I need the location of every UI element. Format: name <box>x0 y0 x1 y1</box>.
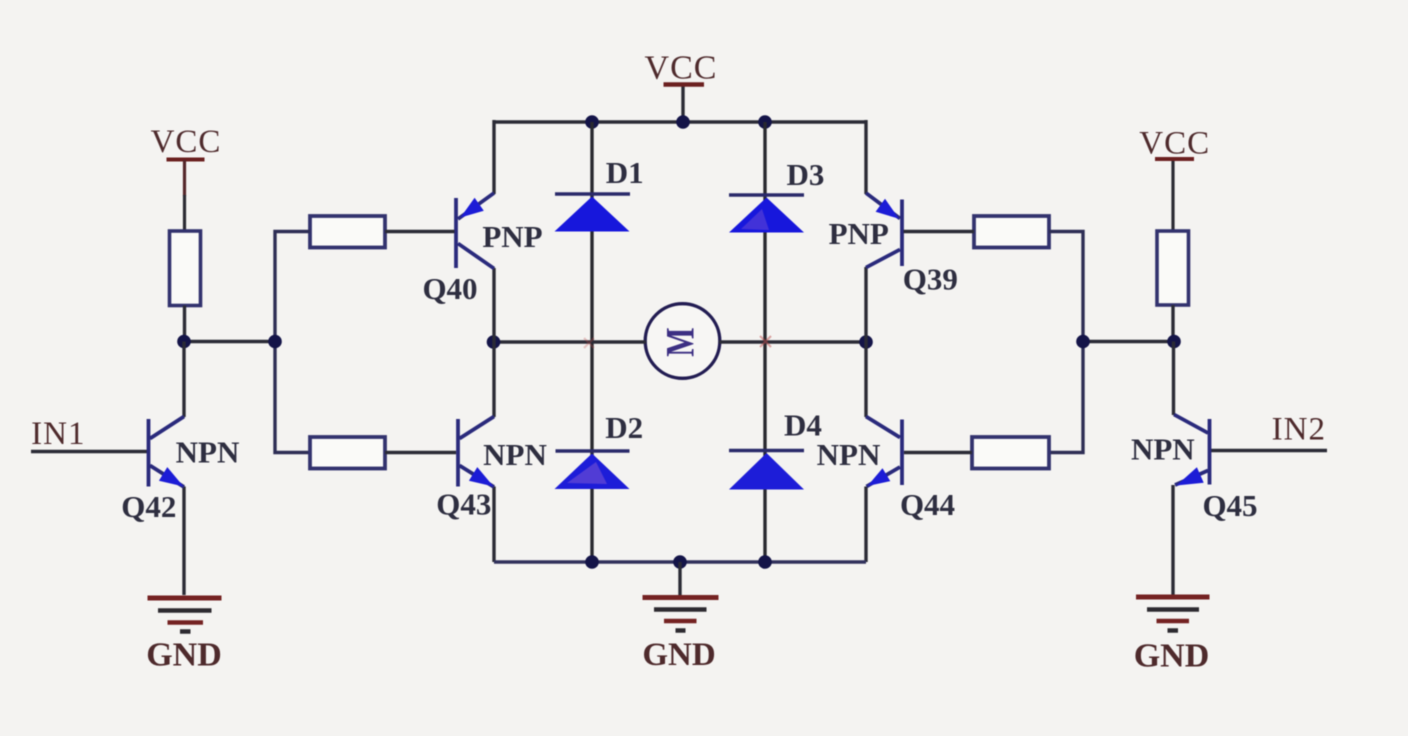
arrow Q42 emitter <box>159 467 184 486</box>
node bottom rail / D2 <box>585 555 599 569</box>
node left resistor junction <box>177 335 191 349</box>
svg-text:M: M <box>658 327 703 356</box>
resistor R right pull-up <box>1157 231 1189 305</box>
node right riser junction <box>1076 335 1090 349</box>
svg-text:VCC: VCC <box>645 50 718 87</box>
wire base resistor to Q40 <box>385 230 455 233</box>
wire Q40 collector to output node <box>492 268 495 342</box>
svg-text:GND: GND <box>642 637 715 673</box>
ground symbol right <box>1134 597 1210 675</box>
ground symbol left <box>146 598 222 674</box>
wire Q44 emitter to bottom rail <box>864 487 867 563</box>
svg-text:D2: D2 <box>605 410 643 445</box>
diode D1 <box>555 155 644 232</box>
resistor R lower-right (Q44 base) <box>972 437 1049 469</box>
svg-text:D1: D1 <box>606 155 644 190</box>
transistor Q43 NPN <box>458 417 494 488</box>
wire Q44 collector vertical <box>864 342 867 417</box>
wire Q43 emitter to bottom rail <box>492 487 495 563</box>
transistor Q44 NPN (mirrored) <box>866 417 902 487</box>
wire motor right <box>719 340 866 343</box>
svg-text:IN2: IN2 <box>1272 412 1326 448</box>
wire Q45 collector vertical <box>1172 342 1175 416</box>
svg-text:D3: D3 <box>787 157 825 192</box>
wire IN1 <box>31 450 147 453</box>
node left riser junction <box>268 335 282 349</box>
wire left resistor to node <box>183 306 186 342</box>
node top rail / D1 <box>585 115 599 129</box>
ground symbol center <box>642 598 718 674</box>
transistor Q40 PNP <box>456 193 494 269</box>
wire Q45 emitter to ground <box>1171 485 1174 595</box>
arrow Q43 emitter <box>469 467 494 486</box>
node bottom rail / D4 <box>758 555 772 569</box>
resistor R left pull-up <box>170 231 201 306</box>
svg-text:Q45: Q45 <box>1202 488 1257 523</box>
svg-text:IN1: IN1 <box>31 416 85 452</box>
svg-text:NPN: NPN <box>176 435 240 470</box>
wire Q42 collector vertical <box>182 342 185 418</box>
diode D2 <box>555 410 644 489</box>
resistor R upper-right (Q39 base) <box>974 216 1049 248</box>
wire right resistor to node <box>1171 305 1174 342</box>
wire base resistor to Q43 <box>385 451 456 454</box>
svg-text:PNP: PNP <box>829 216 889 251</box>
svg-text:NPN: NPN <box>483 437 547 472</box>
svg-text:GND: GND <box>146 637 222 674</box>
node top rail / VCC <box>676 115 690 129</box>
resistor R upper-left (Q40 base) <box>310 216 385 248</box>
wire D3-D4 vertical <box>763 122 766 562</box>
arrow Q45 emitter <box>1177 467 1204 485</box>
svg-text:Q42: Q42 <box>121 489 176 524</box>
node right resistor junction <box>1167 335 1181 349</box>
wire bottom rail GND <box>494 560 866 563</box>
arrow Q40 emitter <box>461 198 484 218</box>
svg-text:Q40: Q40 <box>422 271 477 306</box>
svg-text:Q39: Q39 <box>903 262 958 297</box>
power symbol VCC top <box>645 50 718 123</box>
wire IN2 <box>1211 449 1327 452</box>
motor M1 <box>645 304 720 379</box>
node right H-bridge output <box>859 335 873 349</box>
wire Q39 collector to output node <box>864 267 867 342</box>
transistor Q42 NPN <box>149 417 185 488</box>
power symbol VCC right <box>1139 126 1210 232</box>
transistor Q45 NPN (mirrored) <box>1174 415 1210 486</box>
arrow Q44 emitter <box>868 468 891 486</box>
wire Q42 emitter to ground <box>182 487 185 596</box>
wire left riser top rail to Q40 emitter <box>492 120 495 194</box>
svg-text:NPN: NPN <box>1131 432 1195 467</box>
svg-text:PNP: PNP <box>482 219 542 254</box>
svg-text:Q44: Q44 <box>900 487 955 522</box>
wire right navy riser <box>1049 232 1083 453</box>
wire top rail VCC <box>494 120 866 123</box>
wire motor left <box>494 340 647 343</box>
svg-text:Q43: Q43 <box>436 487 491 522</box>
resistor R lower-left (Q43 base) <box>310 437 385 469</box>
junction artifact cross right <box>760 336 771 347</box>
diode D4 <box>729 408 822 490</box>
wire right riser top rail to Q39 emitter <box>864 120 867 194</box>
wire left node horizontal <box>184 340 275 343</box>
wire Q39 base to resistor <box>904 230 975 233</box>
svg-text:VCC: VCC <box>151 124 222 160</box>
node bottom rail / GND stub <box>673 555 687 569</box>
svg-text:NPN: NPN <box>817 437 881 472</box>
wire Q43 collector vertical <box>492 342 495 417</box>
wire D1-D2 vertical <box>590 122 593 562</box>
node left H-bridge output <box>487 335 501 349</box>
transistor Q39 PNP <box>866 193 902 268</box>
junction artifact cross left <box>584 338 594 348</box>
diode D3 <box>729 157 824 233</box>
arrow Q39 emitter <box>876 199 899 219</box>
node top rail / D3 <box>758 115 772 129</box>
wire right node horizontal <box>1083 340 1174 343</box>
svg-text:VCC: VCC <box>1139 126 1210 162</box>
wire Q44 base to resistor <box>904 451 972 454</box>
svg-text:GND: GND <box>1134 638 1210 675</box>
power symbol VCC left <box>151 124 222 231</box>
wire GND stub center <box>678 562 681 595</box>
wire left navy riser upper corner <box>275 232 310 453</box>
